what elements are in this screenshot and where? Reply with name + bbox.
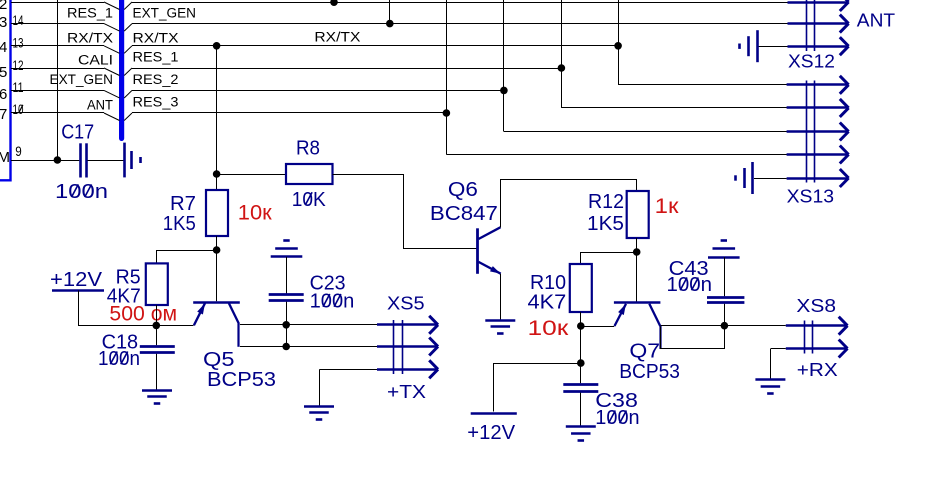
wire C18 bottom lead	[156, 354, 158, 390]
svg-text:1K5: 1K5	[587, 213, 624, 235]
connector XS5 pin1 arrow	[377, 323, 436, 325]
svg-text:EXT_GEN: EXT_GEN	[50, 72, 114, 87]
transistor Q6 base bar	[476, 228, 479, 273]
transistor Q7 base bar	[614, 301, 661, 304]
connector XS12 body	[806, 0, 808, 51]
ground below C18	[142, 389, 172, 392]
svg-text:C17: C17	[61, 121, 94, 143]
resistor R10	[570, 264, 592, 312]
svg-text:+TX: +TX	[387, 381, 426, 402]
wire vertical RES_3 net from top edge down, then right to XS13 pin4	[446, 0, 448, 155]
wire ground to XS13 pin5	[754, 178, 787, 180]
wire Q6 emitter down to ground	[500, 274, 502, 320]
power +12V (right)	[471, 412, 517, 415]
svg-text:+12V: +12V	[467, 422, 515, 444]
junction R12/R10/Q7 base	[633, 248, 641, 256]
wire bus exit EXT_GEN to XS12 pin2 / ANT	[124, 24, 132, 32]
svg-text:CALI: CALI	[78, 53, 113, 68]
svg-text:Q5: Q5	[203, 349, 235, 371]
ground below C38	[566, 425, 596, 428]
wire R7 bottom to Q5 base	[216, 236, 218, 301]
wire Q5 collector to XS5 pin1	[240, 324, 377, 326]
wire IC pin row 6 to bus (left)	[11, 112, 104, 114]
connector XS13 pin2 arrow	[787, 106, 847, 108]
wire bus exit RES_1	[124, 68, 132, 76]
transistor Q7 collector	[649, 304, 660, 326]
svg-text:9: 9	[15, 144, 21, 159]
svg-text:RES_1: RES_1	[133, 50, 179, 65]
svg-text:100n: 100n	[667, 274, 713, 296]
svg-text:100n: 100n	[98, 348, 140, 370]
wire IC pin row 5 to bus (left)	[11, 90, 104, 92]
capacitor C18	[140, 345, 175, 348]
wire C17 to ground	[88, 160, 124, 162]
ground (inverted) above C43	[708, 256, 740, 259]
wire C38 bottom lead	[580, 393, 582, 427]
svg-text:4K7: 4K7	[528, 292, 567, 314]
svg-text:ANT: ANT	[87, 98, 113, 113]
ground at C17 (sideways)	[123, 143, 126, 178]
junction pin9/C17	[54, 156, 62, 164]
svg-text:10: 10	[13, 102, 24, 117]
junction RX/TX branch	[213, 42, 221, 50]
connector XS8 body	[804, 321, 806, 354]
svg-text:500 ом: 500 ом	[109, 303, 177, 326]
svg-text:14: 14	[13, 13, 24, 28]
capacitor C38	[563, 383, 598, 386]
svg-text:1к: 1к	[655, 195, 680, 218]
wire C23 top lead	[286, 257, 288, 294]
wire R12 bottom node to R10 top	[581, 253, 637, 265]
svg-text:R8: R8	[296, 137, 320, 159]
connector XS12 pin3 arrow (GND)	[788, 45, 847, 47]
junction RES_1	[558, 64, 566, 72]
wire Q7 emitter to R10 bottom node	[581, 326, 615, 328]
transistor Q6 collector	[479, 227, 501, 239]
wire vertical RX/TX net from top edge down, then right to XS13 pin1	[618, 0, 620, 85]
svg-text:BC847: BC847	[430, 203, 498, 225]
junction RES_2	[500, 87, 508, 95]
wire bus exit RES_3	[124, 113, 132, 121]
wire bus exit row1 (top) to XS12 pin1	[124, 2, 132, 10]
svg-text:RES_3: RES_3	[133, 95, 179, 110]
wire emitter node down	[580, 326, 582, 383]
capacitor C23	[269, 293, 304, 296]
svg-text:100n: 100n	[595, 407, 639, 429]
transistor Q6 emitter (arrow outward, NPN)	[479, 262, 501, 274]
connector XS12 pin2 arrow (ANT)	[788, 22, 847, 24]
junction RX/TX	[614, 42, 622, 50]
svg-text:EXT_GEN: EXT_GEN	[133, 5, 197, 20]
transistor Q7 emitter (arrow toward base, PNP)	[615, 304, 627, 326]
svg-text:XS13: XS13	[787, 186, 835, 207]
junction C23 on XS5 pin2 wire	[282, 343, 290, 351]
wire C43 bottom lead	[724, 304, 726, 326]
junction EXT_GEN	[386, 20, 394, 28]
bus (thick vertical blue)	[119, 0, 124, 141]
wire ground to XS12 pin3	[758, 46, 788, 48]
transistor Q5 emitter (arrow toward base, PNP)	[194, 303, 205, 325]
svg-text:10к: 10к	[238, 202, 273, 225]
ground at XS13 pin5 (sideways)	[751, 162, 754, 194]
power +12V (left)	[52, 289, 104, 292]
ground at XS12 pin3 (sideways)	[756, 30, 759, 62]
wire Q6 collector up to R12 top	[501, 180, 637, 228]
svg-text:ANT: ANT	[857, 10, 895, 31]
connector XS5 pin2 arrow	[377, 345, 436, 347]
svg-text:XS8: XS8	[796, 295, 836, 316]
resistor R5	[146, 263, 168, 305]
wire R12 bottom	[636, 238, 638, 252]
wire Q5 collector down to XS5 pin2 row	[240, 346, 377, 348]
junction R7 top / R8 left	[213, 170, 221, 178]
wire R8 right to Q6 base	[333, 175, 477, 249]
svg-text:Q6: Q6	[448, 179, 478, 201]
wire R10 bottom	[580, 312, 582, 326]
svg-text:XS12: XS12	[788, 51, 835, 72]
junction on row1 wire	[330, 0, 338, 6]
junction +12V/C38	[577, 359, 585, 367]
junction R5/C18 on emitter wire	[153, 322, 161, 330]
svg-text:BCP53: BCP53	[207, 369, 276, 391]
connector XS5 pin3 arrow (+TX)	[377, 368, 436, 370]
svg-text:5: 5	[0, 64, 7, 81]
connector XS8 pin1 arrow	[786, 324, 846, 326]
svg-text:12: 12	[13, 58, 24, 73]
junction C23 on XS5 pin1 wire	[282, 321, 290, 329]
svg-text:+RX: +RX	[797, 359, 838, 380]
svg-text:R7: R7	[170, 193, 196, 215]
svg-text:3: 3	[0, 14, 7, 31]
wire Q7 collector loop to XS8 node	[661, 326, 725, 349]
wire pin9 net vertical to top edge	[57, 0, 59, 160]
svg-text:1K5: 1K5	[163, 213, 196, 235]
ground below Q6 emitter	[485, 319, 515, 322]
wire C23 bottom lead	[286, 302, 288, 347]
wire IC pin9 to C17	[11, 160, 79, 162]
connector XS13 pin3 arrow	[787, 130, 847, 132]
svg-text:100n: 100n	[310, 291, 355, 313]
svg-text:BCP53: BCP53	[619, 361, 680, 383]
ground below XS8 pin2	[755, 378, 785, 381]
svg-text:RX/TX: RX/TX	[314, 29, 360, 44]
svg-text:R12: R12	[588, 191, 624, 213]
svg-text:2: 2	[0, 0, 7, 13]
svg-text:RES_1: RES_1	[67, 5, 113, 20]
wire IC pin row 3 to bus (left)	[11, 45, 104, 47]
resistor R8	[286, 164, 333, 184]
wire +12V down and right to Q5 emitter	[79, 291, 194, 326]
transistor Q5 collector	[229, 303, 239, 324]
wire IC pin row 2 to bus (left)	[11, 23, 104, 25]
wire vertical RES_1 net from top edge down, then right to XS13 pin2	[561, 0, 563, 108]
connector XS13 body	[806, 81, 808, 183]
svg-text:RES_2: RES_2	[133, 72, 179, 87]
svg-text:10K: 10K	[292, 189, 327, 211]
wire XS5 pin3 to ground	[320, 369, 377, 371]
wire C43 top lead	[724, 257, 726, 296]
ground (inverted) above C23	[271, 255, 303, 258]
svg-text:M: M	[0, 149, 10, 166]
svg-text:+12V: +12V	[50, 269, 103, 291]
svg-text:XS5: XS5	[387, 293, 425, 314]
junction R10/Q7 emitter	[577, 322, 585, 330]
capacitor C43	[707, 296, 744, 299]
connector XS13 pin1 arrow	[787, 83, 847, 85]
ground below XS5 pin3	[304, 405, 334, 408]
transistor Q5 base bar	[193, 301, 240, 304]
wire bus exit RES_2	[124, 90, 132, 98]
wire R5 bottom	[156, 305, 158, 325]
wire bus exit RX/TX	[124, 46, 132, 54]
capacitor C17	[79, 143, 82, 177]
wire IC pin row 1 to bus (left)	[11, 2, 104, 4]
connector XS8 pin2 arrow (+RX)	[786, 347, 846, 349]
resistor R7	[206, 190, 228, 236]
connector XS5 body	[393, 320, 395, 374]
wire R8 left	[217, 174, 286, 176]
wire XS8 pin2 to ground	[771, 348, 786, 350]
resistor R12	[627, 191, 649, 238]
connector XS13 pin5 arrow	[787, 177, 847, 179]
svg-text:100n: 100n	[55, 181, 108, 203]
svg-text:6: 6	[0, 86, 7, 103]
wire +12V (right) to node	[494, 364, 581, 412]
junction RES_3	[443, 109, 451, 117]
svg-text:RX/TX: RX/TX	[133, 30, 179, 45]
junction R7 bottom / R5	[213, 246, 221, 254]
svg-text:RX/TX: RX/TX	[67, 30, 113, 45]
junction C43 / Q7 collector / XS8	[721, 322, 729, 330]
wire IC pin row 4 to bus (left)	[11, 68, 104, 70]
IC DD? body right edge (cut off at left)	[0, 0, 11, 180]
wire RX/TX branch down to R7/R8 node	[216, 46, 218, 190]
wire R5 top to R7 bottom node	[157, 251, 217, 264]
wire vertical RES_2 net from top edge down, then right to XS13 pin3	[503, 0, 505, 132]
svg-text:10к: 10к	[528, 317, 570, 340]
svg-text:13: 13	[13, 36, 24, 51]
wire vertical from top edge to EXT_GEN row	[389, 0, 391, 24]
wire Q7 base from R12 node	[636, 252, 638, 302]
wire stub at top edge to node on row1	[334, 0, 336, 2]
connector XS12 pin1 arrow	[788, 1, 847, 3]
svg-text:7: 7	[0, 106, 7, 123]
svg-text:Q7: Q7	[629, 341, 660, 363]
connector XS13 pin4 arrow	[787, 153, 847, 155]
wire C18 top lead	[156, 325, 158, 345]
svg-text:4: 4	[0, 39, 7, 56]
svg-text:11: 11	[13, 80, 24, 95]
